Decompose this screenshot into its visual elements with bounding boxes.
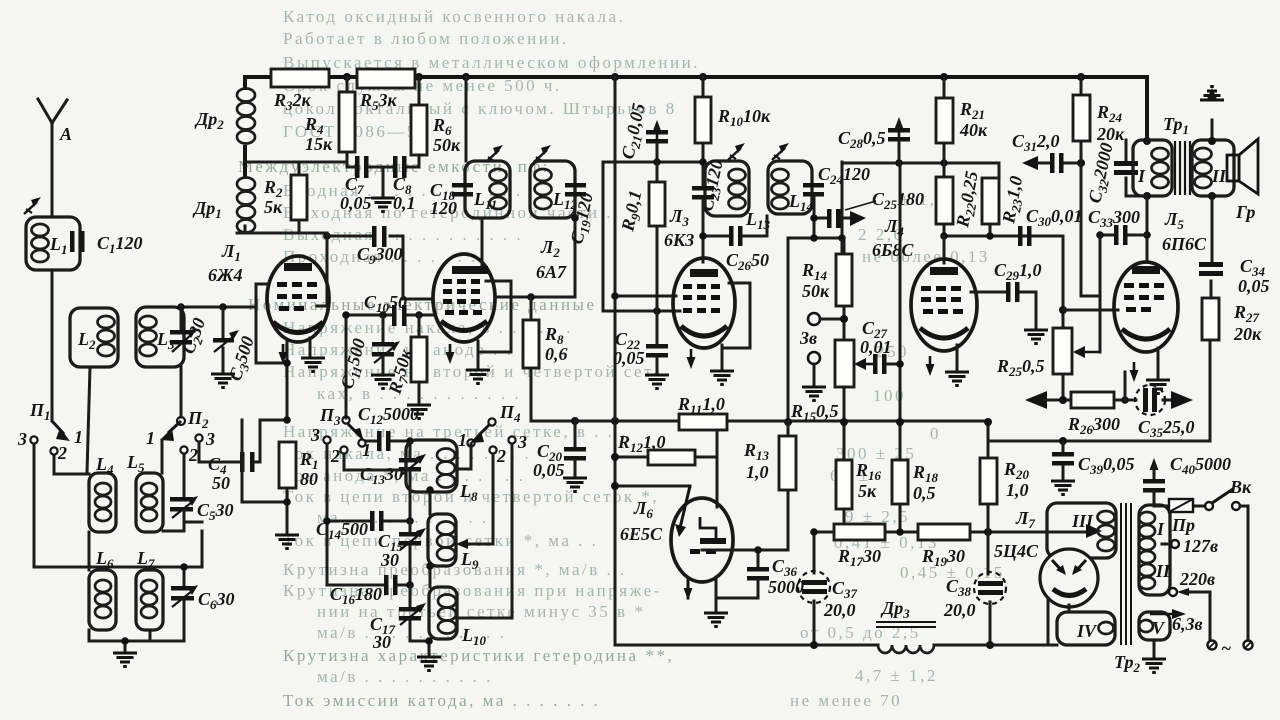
node C3: [219, 303, 227, 311]
capacitor C37 electrolytic: [813, 532, 816, 645]
coil L4 box: [89, 473, 116, 532]
wire R15 chain to R16: [843, 387, 846, 460]
svg-text:Л1: Л1: [221, 241, 241, 264]
svg-text:С530: С530: [197, 500, 234, 523]
wire L2 tail: [87, 367, 90, 473]
resistor R26: [1071, 392, 1114, 408]
grid wire Л2: [403, 298, 433, 301]
coil L1 box: [26, 217, 80, 270]
ground C7/C8: [371, 198, 395, 212]
svg-text:3: 3: [17, 429, 27, 449]
node mid-bus: [611, 73, 619, 81]
resistor R20: [987, 422, 990, 532]
svg-text:С9300: С9300: [357, 244, 403, 267]
svg-text:0,01: 0,01: [860, 337, 892, 357]
capacitor C35 electrolytic: [1135, 385, 1165, 415]
svg-text:50к: 50к: [433, 135, 461, 155]
wire L1 to П1: [51, 270, 54, 421]
bottom bus: [615, 644, 1057, 647]
svg-text:R21: R21: [959, 99, 985, 122]
wire L14 bottom / C25 row: [814, 196, 850, 238]
svg-text:С33300: С33300: [1088, 207, 1140, 230]
svg-text:2: 2: [57, 443, 67, 463]
svg-text:R250,5: R250,5: [996, 356, 1045, 379]
svg-text:R231,0: R231,0: [998, 174, 1029, 226]
svg-text:30: 30: [380, 550, 399, 570]
resistor R14: [843, 238, 846, 340]
svg-text:Тр2: Тр2: [1114, 652, 1141, 675]
coil L5 box: [136, 473, 163, 532]
svg-text:R1930: R1930: [921, 546, 965, 569]
svg-text:ма/в . . . . . . . .: ма/в . . . . . . . . . .: [317, 667, 493, 686]
svg-text:R111,0: R111,0: [677, 394, 725, 417]
capacitor C31: [1022, 156, 1038, 170]
tap 127v: [1162, 543, 1171, 546]
ground above secondary: [1211, 120, 1214, 140]
svg-text:П2: П2: [187, 408, 209, 431]
Tr1 core: [1175, 141, 1190, 195]
svg-text:II: II: [1211, 166, 1227, 186]
capacitor C14: [327, 520, 410, 523]
Tr2 core: [1121, 503, 1131, 645]
resistor R24: [1081, 77, 1100, 296]
capacitor C9: [327, 236, 403, 299]
wire L12/C19 down to screen line: [574, 197, 577, 297]
svg-text:V: V: [1152, 618, 1166, 638]
capacitor C13 trimmer: [409, 441, 412, 521]
svg-text:50: 50: [212, 473, 230, 493]
capacitor C4: [240, 452, 245, 472]
svg-text:П4: П4: [499, 402, 521, 425]
svg-text:1: 1: [74, 427, 83, 447]
svg-text:R27: R27: [1233, 302, 1260, 325]
svg-text:0,05: 0,05: [613, 348, 645, 368]
svg-text:R16: R16: [855, 460, 882, 483]
wire B+ center vertical: [614, 77, 617, 645]
svg-text:IV: IV: [1076, 621, 1098, 641]
svg-text:1: 1: [362, 440, 371, 460]
resistor R7: [418, 315, 421, 404]
resistor R5: [357, 69, 415, 88]
svg-text:III: III: [1071, 511, 1094, 531]
ground Л5: [1157, 348, 1160, 378]
svg-text:3в: 3в: [799, 328, 817, 348]
capacitor C30: [1018, 226, 1023, 246]
svg-text:L4: L4: [95, 454, 114, 477]
trimmer C5: [170, 497, 193, 502]
svg-text:Пр: Пр: [1171, 515, 1195, 535]
svg-text:Др1: Др1: [192, 198, 222, 221]
capacitor C15 trimmer: [409, 521, 412, 585]
svg-text:С312,0: С312,0: [1012, 131, 1060, 154]
ground under V: [1153, 640, 1156, 658]
wire C10 row: [344, 315, 433, 418]
svg-text:220в: 220в: [1179, 569, 1215, 589]
wire П1-2 to L4: [54, 455, 89, 474]
svg-text:0: 0: [930, 424, 941, 443]
tap 220v: [1169, 588, 1177, 596]
terminal gnd: [808, 352, 820, 364]
svg-text:3: 3: [310, 425, 320, 445]
wire П3-2: [344, 454, 399, 470]
wire L4-L6: [88, 532, 91, 570]
long line y=421: [531, 420, 988, 423]
ground Л4: [956, 345, 959, 370]
svg-text:0,6: 0,6: [545, 344, 568, 364]
Tr2 windings I/II box: [1139, 505, 1170, 595]
node C2: [177, 303, 185, 311]
svg-text:С300,01: С300,01: [1026, 206, 1083, 229]
winding V 6.3v: [1139, 612, 1170, 640]
coil L3 box: [136, 307, 184, 367]
svg-text:6К3: 6К3: [664, 230, 694, 250]
svg-text:50к: 50к: [802, 281, 830, 301]
svg-text:С37: С37: [832, 578, 858, 601]
svg-text:С291,0: С291,0: [994, 260, 1042, 283]
wire x900 vertical: [899, 163, 902, 459]
svg-text:С125000: С125000: [358, 404, 419, 427]
coil L6 box: [89, 570, 116, 630]
capacitor C25: [827, 209, 832, 228]
IF can L11/C18: [465, 77, 468, 161]
svg-text:0,05: 0,05: [340, 193, 372, 213]
svg-text:2: 2: [330, 446, 340, 466]
trimmer C6: [183, 567, 186, 586]
svg-text:40к: 40к: [959, 120, 988, 140]
wire plate Л1: [317, 233, 327, 306]
capacitor C7: [355, 156, 360, 178]
trimmer C2: [180, 307, 183, 330]
wire П2-1 to L5: [161, 440, 164, 473]
svg-text:2: 2: [188, 445, 198, 465]
svg-text:от 0,5 до 2,5: от 0,5 до 2,5: [800, 623, 921, 642]
svg-text:С630: С630: [198, 589, 235, 612]
tuning arrow L1: [24, 197, 41, 214]
node R6-bus: [415, 73, 423, 81]
svg-text:3: 3: [517, 432, 527, 452]
resistor R4: [346, 77, 349, 167]
fuse Пр: [1156, 505, 1205, 508]
resistor R16: [836, 460, 852, 509]
wire y162 top line right section: [842, 162, 999, 165]
coil L2 box: [70, 308, 118, 367]
wire y162 junction line: [603, 162, 703, 311]
mains terminals: [1208, 641, 1217, 650]
svg-text:6Е5С: 6Е5С: [620, 524, 663, 544]
suppressor ground Л1: [309, 338, 312, 356]
IF can L12/C19: [534, 145, 551, 162]
svg-text:Др3: Др3: [880, 598, 910, 621]
resistor R21: [943, 77, 946, 163]
wire detector line y238: [788, 162, 844, 422]
svg-text:R18: R18: [912, 462, 939, 485]
svg-text:1: 1: [146, 428, 155, 448]
transformer Tr2 winding III: [1086, 524, 1102, 538]
svg-text:Ток эмиссии катода, ма . .: Ток эмиссии катода, ма . . . . . . .: [283, 691, 600, 710]
wire П4-2 to L9: [468, 454, 493, 544]
node R10-bus: [699, 73, 707, 81]
svg-text:L1: L1: [49, 234, 68, 257]
wire x1100 C33 to R25 wiper: [1099, 235, 1102, 352]
svg-text:Тр1: Тр1: [1163, 114, 1189, 137]
terminal 3v: [808, 313, 820, 325]
resistor R17: [834, 524, 885, 540]
capacitor C33: [1100, 234, 1147, 237]
svg-text:6А7: 6А7: [536, 262, 567, 282]
screen loop Л3: [722, 283, 750, 369]
svg-text:Работает в любом положении.: Работает в любом положении.: [283, 29, 569, 48]
ground Л3: [710, 371, 734, 385]
node R24-bus: [1077, 73, 1085, 81]
wire П1-3 down and across: [34, 444, 202, 567]
capacitor C28 with arrow: [895, 117, 904, 137]
capacitor C1: [70, 231, 75, 252]
svg-text:С14500: С14500: [316, 519, 368, 542]
svg-text:Вк: Вк: [1229, 477, 1252, 497]
wire R16-R17: [843, 509, 846, 532]
coil L7 box: [136, 570, 163, 630]
capacitor C26: [729, 226, 734, 246]
line y441: [988, 440, 1209, 443]
svg-text:R150,5: R150,5: [790, 401, 839, 424]
svg-text:R220,25: R220,25: [952, 170, 985, 231]
wire C7/C8 row: [347, 167, 419, 197]
svg-text:Л3: Л3: [669, 206, 689, 229]
svg-text:0,05: 0,05: [533, 460, 565, 480]
svg-text:С1120: С1120: [97, 233, 143, 256]
wire target line y550: [724, 549, 786, 552]
trimmer C3 + ground: [222, 307, 225, 338]
wire П4-1 to L8: [455, 444, 471, 469]
wire П4-3 to L10: [455, 444, 512, 618]
svg-text:Л2: Л2: [540, 237, 560, 260]
svg-text:1,0: 1,0: [746, 462, 769, 482]
coil L8: [406, 440, 457, 492]
wire L3 tail to П2: [180, 367, 183, 417]
capacitor C22 + ground: [656, 311, 659, 344]
svg-text:С390,05: С390,05: [1078, 454, 1135, 477]
coil L9: [429, 492, 432, 514]
speaker Гр: [1227, 155, 1239, 181]
svg-text:0,5: 0,5: [913, 483, 936, 503]
svg-text:L9: L9: [460, 549, 479, 572]
svg-text:L6: L6: [95, 548, 114, 571]
resistor R27: [1202, 298, 1219, 340]
wire R22 to Л4 top cap: [943, 236, 946, 263]
svg-text:Л7: Л7: [1015, 508, 1035, 531]
svg-text:Др2: Др2: [194, 109, 224, 132]
capacitor C27: [873, 354, 878, 374]
Tr1 secondary II: [1192, 140, 1234, 196]
svg-text:С405000: С405000: [1170, 454, 1231, 477]
resistor R10: [702, 77, 705, 186]
capacitor C29: [971, 292, 1036, 329]
svg-text:R90,1: R90,1: [617, 189, 648, 235]
IF can L13/C23: [728, 143, 745, 160]
heater arrow Л1: [279, 344, 288, 364]
svg-text:R32к: R32к: [273, 90, 312, 113]
svg-text:4,7 ± 1,2: 4,7 ± 1,2: [855, 666, 938, 685]
capacitor C36: [757, 550, 760, 567]
resistor R8: [530, 297, 533, 421]
grid line Л5: [1063, 309, 1118, 312]
svg-text:R26300: R26300: [1067, 414, 1120, 437]
svg-text:II: II: [1155, 561, 1171, 581]
capacitor C20: [574, 421, 577, 447]
svg-text:6Ж4: 6Ж4: [208, 265, 243, 285]
svg-text:С24120: С24120: [818, 164, 870, 187]
bottom line of coil tank + ground: [89, 630, 184, 652]
svg-text:П1: П1: [29, 400, 51, 423]
resistor R3: [271, 69, 329, 87]
svg-text:I: I: [1137, 166, 1146, 186]
svg-text:R14: R14: [801, 260, 828, 283]
heater arrow Л4: [926, 356, 935, 376]
capacitor C38 electrolytic: [988, 532, 990, 645]
svg-text:С16180: С16180: [330, 584, 382, 607]
node R4-bus: [343, 73, 351, 81]
resistor R13: [787, 422, 790, 550]
wire AVC y236 line: [944, 236, 1063, 328]
svg-text:R53к: R53к: [359, 90, 398, 113]
potentiometer R15: [835, 340, 854, 387]
wire П2-3 to C4: [199, 442, 240, 462]
svg-text:не менее 70: не менее 70: [790, 691, 902, 710]
svg-text:С23120: С23120: [696, 158, 729, 214]
wire П2-2 to C5: [183, 454, 186, 496]
cathode wire Л1: [256, 284, 287, 420]
svg-text:20,0: 20,0: [943, 600, 976, 620]
wire Л7 to bottom: [1048, 598, 1069, 645]
svg-text:30: 30: [372, 632, 391, 652]
heater arrow Л5: [1130, 362, 1139, 382]
screen line to R8: [495, 296, 575, 299]
svg-text:5к: 5к: [264, 197, 283, 217]
svg-text:R20: R20: [1003, 459, 1030, 482]
svg-text:20к: 20к: [1096, 124, 1125, 144]
svg-text:1,0: 1,0: [1006, 480, 1029, 500]
svg-text:С36: С36: [772, 556, 798, 579]
svg-text:С280,5: С280,5: [838, 128, 886, 151]
resistor R23: [990, 163, 999, 236]
svg-text:20к: 20к: [1233, 324, 1262, 344]
svg-text:5к: 5к: [858, 481, 877, 501]
svg-text:Катод оксидный косвенного нака: Катод оксидный косвенного накала.: [283, 7, 625, 26]
cathode row R26/C35: [1025, 391, 1047, 409]
svg-text:L7: L7: [136, 548, 155, 571]
top B+ bus: [245, 77, 1147, 140]
wire C23 to Л3 top cap: [703, 200, 729, 262]
svg-text:Л5: Л5: [1164, 209, 1184, 232]
resistor R6: [418, 77, 421, 167]
capacitor C10: [392, 305, 397, 326]
wire AVC line to Л3 grid: [603, 296, 680, 311]
svg-text:R13: R13: [743, 440, 770, 463]
resistor R12: [615, 433, 717, 507]
capacitor C40 with arrow: [1150, 458, 1159, 478]
resistor R11: [615, 420, 788, 423]
resistor R18: [899, 459, 902, 532]
resistor R19: [918, 524, 970, 540]
capacitor C21 with arrow: [653, 120, 662, 140]
svg-text:5Ц4С: 5Ц4С: [994, 541, 1039, 561]
resistor R9: [656, 162, 659, 311]
svg-text:1: 1: [458, 430, 467, 450]
capacitor C16: [327, 584, 411, 587]
wire Tr1 to Л5 plate: [1143, 137, 1151, 145]
heater arrow Л3: [687, 349, 696, 369]
svg-text:Крутизна характеристики гетеро: Крутизна характеристики гетеродина **,: [283, 646, 674, 665]
svg-text:3: 3: [205, 429, 215, 449]
grid wire Л1: [256, 283, 268, 286]
trimmer C11: [382, 315, 385, 342]
svg-text:127в: 127в: [1183, 536, 1218, 556]
svg-text:С2650: С2650: [726, 250, 769, 273]
svg-text:6П6С: 6П6С: [1162, 234, 1207, 254]
svg-text:С25180: С25180: [872, 189, 924, 212]
svg-text:R121,0: R121,0: [617, 432, 666, 455]
svg-text:П3: П3: [319, 405, 341, 428]
svg-text:Гр: Гр: [1235, 202, 1255, 222]
potentiometer R25: [1062, 374, 1065, 400]
capacitor C34: [1211, 196, 1212, 298]
svg-text:2: 2: [496, 446, 506, 466]
wire Л2 top cap to L11: [481, 218, 484, 266]
coil L10: [429, 566, 432, 587]
capacitor C12: [366, 440, 407, 443]
svg-text:R1010к: R1010к: [717, 106, 771, 129]
svg-text:С3525,0: С3525,0: [1138, 417, 1195, 440]
capacitor C17 trimmer: [410, 585, 429, 655]
capacitor C8: [393, 156, 398, 178]
resistor R2: [291, 175, 307, 220]
svg-text:0,1: 0,1: [393, 193, 416, 213]
svg-text:L2: L2: [77, 329, 96, 352]
capacitor C32: [1125, 140, 1128, 196]
node L11-bus: [462, 73, 470, 81]
svg-text:15к: 15к: [305, 134, 333, 154]
ground Л2: [466, 370, 490, 384]
svg-text:80: 80: [300, 469, 318, 489]
svg-text:120: 120: [430, 198, 457, 218]
resistor R22: [943, 163, 946, 236]
wire П3-3 down: [326, 444, 329, 585]
wire Dr1/R2 frame: [237, 162, 347, 233]
wire L3 top line: [184, 306, 256, 309]
svg-text:А: А: [59, 124, 72, 144]
svg-text:L5: L5: [126, 452, 145, 475]
svg-text:6Б8С: 6Б8С: [872, 240, 914, 260]
resistor R1: [279, 442, 296, 488]
heater arrow Л2: [446, 344, 455, 364]
IF can L14/C24: [772, 143, 789, 160]
svg-text:Выпускается в металлическом оф: Выпускается в металлическом оформлении.: [283, 53, 700, 72]
node R21-bus: [940, 73, 948, 81]
line y532 R17/R19 row: [814, 531, 1085, 534]
antenna A: [38, 99, 67, 217]
svg-text:0,05: 0,05: [1238, 276, 1270, 296]
capacitor C39: [1062, 441, 1065, 452]
transformer Tr2 winding IV: [1057, 612, 1115, 645]
svg-text:R24: R24: [1096, 102, 1123, 125]
svg-text:~: ~: [1221, 638, 1231, 658]
screen loop Л2: [478, 281, 511, 368]
svg-text:20,0: 20,0: [823, 600, 856, 620]
ground L10: [425, 637, 433, 645]
svg-text:I: I: [1156, 519, 1165, 539]
wire C4 to cathode bias: [242, 420, 287, 502]
